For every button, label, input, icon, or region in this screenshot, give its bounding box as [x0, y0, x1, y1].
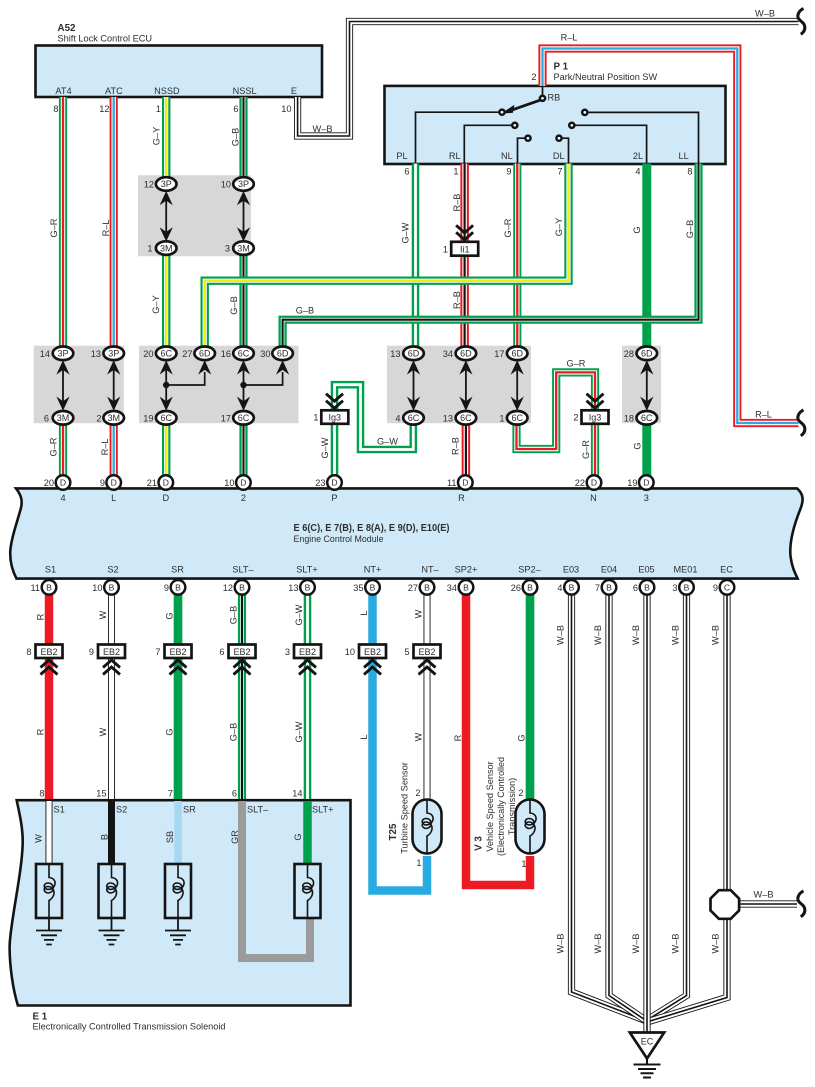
wire contact to PL pin [416, 112, 500, 163]
wire R from ECM SP2+ pin 34 to V3 pin 1 [466, 593, 530, 885]
svg-text:17: 17 [494, 349, 504, 359]
svg-text:T25: T25 [388, 823, 399, 840]
svg-text:EB2: EB2 [299, 647, 316, 657]
svg-text:14: 14 [40, 349, 50, 359]
wire contact to DL pin [562, 138, 569, 163]
connector 20 6C [156, 347, 177, 361]
svg-text:S2: S2 [116, 805, 127, 815]
svg-text:3: 3 [285, 647, 290, 657]
Engine Control Module band [10, 488, 802, 578]
wire G-W from P1 PL pin 6 to 13 6D [415, 164, 417, 348]
svg-text:NSSD: NSSD [154, 86, 180, 96]
ECM pin circle 21 D [159, 475, 174, 490]
connector 13 6C [456, 411, 477, 425]
svg-text:23: 23 [315, 478, 325, 488]
svg-text:8: 8 [53, 104, 58, 114]
svg-text:10: 10 [224, 478, 234, 488]
svg-text:13: 13 [288, 583, 298, 593]
wire G-R from 1 6C through 2 Ig3 to ECM pin 22 D [517, 372, 596, 476]
svg-text:EC: EC [641, 1037, 654, 1047]
connector pair arrow 28 6D column [640, 360, 653, 411]
svg-text:13: 13 [390, 349, 400, 359]
svg-text:3: 3 [644, 493, 649, 503]
svg-text:R: R [453, 734, 463, 741]
connector 1 3M [156, 241, 177, 255]
svg-text:8: 8 [26, 647, 31, 657]
svg-text:16: 16 [221, 349, 231, 359]
wire G-W from 4 6C through 1 Ig3 to ECM pin 23 D [335, 385, 414, 476]
ECM pin circle 13 B SLT+ [300, 580, 315, 595]
svg-text:R: R [36, 613, 46, 620]
svg-text:R–L: R–L [101, 220, 111, 237]
svg-text:G: G [293, 833, 303, 840]
svg-text:EB2: EB2 [418, 647, 435, 657]
ground below S1 [36, 918, 62, 945]
svg-text:1: 1 [499, 414, 504, 424]
svg-text:10: 10 [92, 583, 102, 593]
wire GR inside E1 from SLT- to SLT+ solenoid bottom [242, 801, 310, 958]
svg-text:W–B: W–B [711, 934, 721, 954]
svg-text:2: 2 [573, 413, 578, 423]
svg-text:6: 6 [44, 414, 49, 424]
wire W inside E1 to S1 solenoid [48, 801, 50, 864]
svg-text:18: 18 [624, 414, 634, 424]
svg-text:10: 10 [345, 647, 355, 657]
svg-text:SLT–: SLT– [247, 805, 269, 815]
wire G from ECM SP2- pin 26 to V3 pin 2 [526, 593, 535, 800]
svg-text:19: 19 [627, 478, 637, 488]
svg-text:W: W [414, 609, 424, 618]
wire G from P1 2L pin 4 to 28 6D [642, 164, 651, 348]
V3 Vehicle Speed Sensor capsule [516, 800, 545, 854]
wire contact to NL pin [518, 138, 526, 163]
svg-text:E03: E03 [563, 564, 579, 574]
svg-text:P: P [331, 493, 337, 503]
svg-text:R: R [458, 493, 465, 503]
connector pair arrow AT4 column [56, 360, 69, 411]
connector 1 6C [507, 411, 528, 425]
connector 3 EB2 SLT+ [294, 645, 321, 659]
svg-text:1: 1 [147, 244, 152, 254]
wire W from ECM NT- pin 27 through 5 EB2 to T25 pin 2 [426, 593, 428, 800]
octagon junction on EC wire [711, 890, 740, 919]
chevron into 1 Ig3 [326, 394, 343, 409]
svg-text:28: 28 [624, 349, 634, 359]
svg-text:G: G [165, 612, 175, 619]
Shift Lock Control ECU A52 block [36, 46, 323, 98]
svg-text:9: 9 [89, 647, 94, 657]
svg-text:W–B: W–B [754, 890, 774, 900]
wire W from ECM S2 pin 10 through 9 EB2 to E1 [111, 593, 113, 799]
svg-text:Engine Control Module: Engine Control Module [294, 534, 384, 544]
node RB [540, 96, 545, 101]
svg-text:E05: E05 [638, 564, 654, 574]
svg-text:W–B: W–B [556, 934, 566, 954]
page break curl right W-B octagon [798, 891, 805, 917]
connector pair arrow 16 6C column with junction [237, 360, 250, 411]
svg-text:SLT–: SLT– [232, 564, 254, 574]
svg-text:27: 27 [182, 349, 192, 359]
wire W-B from ECM E05 pin 6 straight to EC ground [646, 593, 648, 1033]
svg-text:30: 30 [260, 349, 270, 359]
svg-text:2: 2 [518, 788, 523, 798]
svg-text:W: W [414, 732, 424, 741]
wire SB inside E1 to SR solenoid [174, 801, 182, 864]
ECM pin circle 35 B NT+ [365, 580, 380, 595]
wire B inside E1 to S2 solenoid [108, 801, 115, 864]
wire L from ECM NT+ pin 35 through 10 EB2 to T25 pin 1 [373, 593, 428, 891]
svg-text:1: 1 [416, 858, 421, 868]
ECM pin circle 22 D [587, 475, 602, 490]
svg-text:2: 2 [531, 72, 536, 82]
ECM pin circle 3 B ME01 [679, 580, 694, 595]
svg-text:S1: S1 [54, 805, 65, 815]
svg-text:4: 4 [60, 493, 65, 503]
svg-text:6: 6 [232, 789, 237, 799]
svg-text:A52: A52 [58, 23, 77, 34]
svg-text:W: W [98, 727, 108, 736]
svg-text:NT–: NT– [421, 564, 439, 574]
ECM pin circle 9 B SR [171, 580, 186, 595]
page break curl right R-L [798, 410, 805, 436]
connector 18 6C [637, 411, 658, 425]
svg-text:DL: DL [553, 151, 565, 161]
svg-text:11: 11 [447, 478, 457, 488]
ECM pin circle 20 D [56, 475, 71, 490]
connector 28 6D [637, 347, 658, 361]
wire W-B from ECM E04 pin 7 to EC ground [609, 593, 646, 1021]
connector 8 EB2 S1 [36, 645, 63, 659]
svg-text:AT4: AT4 [55, 86, 71, 96]
svg-text:9: 9 [164, 583, 169, 593]
wire W-B from ECM ME01 pin 3 to EC ground [648, 593, 687, 1020]
wire G-B from A52 NSSL pin 6 through 10 3P / 3 3M to 16 6C [243, 97, 245, 347]
svg-text:SLT+: SLT+ [312, 805, 334, 815]
svg-text:G–W: G–W [294, 604, 304, 625]
wire W-B from ECM EC pin 9 through octagon junction to EC ground [649, 593, 728, 1022]
wire contact to 2L pin [574, 125, 646, 163]
solenoid SR coil box [165, 864, 191, 918]
ECM pin circle 12 B SLT- [235, 580, 250, 595]
svg-text:SR: SR [171, 564, 184, 574]
wire G-R from 6 3M to ECM pin 20 D [62, 424, 64, 476]
svg-text:35: 35 [353, 583, 363, 593]
svg-text:20: 20 [44, 478, 54, 488]
svg-text:EC: EC [720, 564, 733, 574]
wire G-B from ECM SLT- pin 12 through 6 EB2 to E1 [241, 593, 243, 799]
connector 13 3P [103, 347, 124, 361]
connector 34 6D [456, 347, 477, 361]
E1 Transmission Solenoid block [10, 800, 351, 1005]
wire R from ECM S1 pin 11 through 8 EB2 to E1 [45, 593, 54, 799]
connector pair arrow NSSL column [237, 191, 250, 242]
svg-text:21: 21 [147, 478, 157, 488]
svg-text:G: G [632, 226, 642, 233]
svg-text:20: 20 [143, 349, 153, 359]
svg-text:G–R: G–R [503, 218, 513, 237]
svg-text:15: 15 [96, 789, 106, 799]
svg-text:G–Y: G–Y [554, 218, 564, 236]
svg-text:W–B: W–B [556, 625, 566, 645]
svg-text:G: G [165, 728, 175, 735]
svg-text:G–W: G–W [377, 437, 398, 447]
svg-text:34: 34 [447, 583, 457, 593]
svg-text:Electronically Controlled Tran: Electronically Controlled Transmission S… [33, 1022, 226, 1032]
svg-text:G–B: G–B [229, 296, 239, 314]
svg-text:S1: S1 [45, 564, 56, 574]
svg-text:Park/Neutral Position SW: Park/Neutral Position SW [554, 72, 658, 82]
svg-text:EB2: EB2 [233, 647, 250, 657]
wire W-B from A52 E pin 10 to top right page break [298, 22, 799, 137]
svg-text:L: L [359, 610, 369, 615]
svg-text:ME01: ME01 [673, 564, 697, 574]
svg-text:G–Y: G–Y [151, 295, 161, 313]
wire lead from P1 pin 2 to RB contact [542, 86, 544, 96]
svg-text:1: 1 [313, 413, 318, 423]
wire G-Y from P1 DL pin 7 left to 27 6D [205, 164, 569, 348]
ECM pin circle 9 D [106, 475, 121, 490]
svg-text:V 3: V 3 [474, 836, 485, 851]
svg-text:SR: SR [183, 805, 196, 815]
svg-text:7: 7 [557, 167, 562, 177]
connector 12 3P [156, 177, 177, 191]
wire R-B from 13 6C to ECM pin 11 D [465, 424, 467, 476]
svg-text:N: N [590, 493, 597, 503]
svg-text:G: G [517, 734, 527, 741]
svg-text:17: 17 [221, 414, 231, 424]
svg-text:4: 4 [557, 583, 562, 593]
svg-text:10: 10 [221, 180, 231, 190]
connector 30 6D [272, 347, 293, 361]
svg-text:EB2: EB2 [103, 647, 120, 657]
svg-text:Turbine Speed Sensor: Turbine Speed Sensor [400, 762, 410, 854]
svg-text:34: 34 [443, 349, 453, 359]
svg-text:EB2: EB2 [169, 647, 186, 657]
svg-text:2: 2 [241, 493, 246, 503]
svg-text:13: 13 [91, 349, 101, 359]
wire G-R from A52 AT4 pin 8 to 14 3P [62, 97, 64, 347]
ECM pin circle 10 B S2 [104, 580, 119, 595]
svg-text:RL: RL [449, 151, 461, 161]
svg-text:G–B: G–B [231, 128, 241, 146]
svg-text:6: 6 [404, 167, 409, 177]
svg-text:8: 8 [39, 789, 44, 799]
svg-text:G–R: G–R [49, 218, 59, 237]
connector pair arrow 17 6D column [511, 360, 524, 411]
connector 9 EB2 S2 [98, 645, 125, 659]
connector 2 Ig3 box [582, 410, 609, 424]
svg-text:Transmission): Transmission) [507, 778, 517, 835]
svg-text:W–B: W–B [593, 934, 603, 954]
svg-text:7: 7 [168, 789, 173, 799]
svg-text:E: E [291, 86, 297, 96]
svg-text:12: 12 [144, 180, 154, 190]
svg-text:R–B: R–B [452, 291, 462, 309]
connector 13 6D [403, 347, 424, 361]
chevron into 1 Ii1 [456, 225, 473, 240]
ECM pin circle 11 B S1 [42, 580, 57, 595]
svg-text:L: L [359, 734, 369, 739]
solenoid S1 coil box [36, 864, 62, 918]
connector 14 3P [53, 347, 74, 361]
svg-text:7: 7 [155, 647, 160, 657]
svg-text:7: 7 [595, 583, 600, 593]
wire R-L from P1 pin 2 down right side to page break [543, 49, 799, 424]
wire G-Y from A52 NSSD pin 1 through 12 3P / 1 3M to 20 6C [165, 97, 167, 347]
svg-text:G–W: G–W [294, 721, 304, 742]
svg-text:1: 1 [156, 104, 161, 114]
svg-text:G–B: G–B [229, 606, 239, 624]
ECM pin circle 34 B SP2+ [459, 580, 474, 595]
connector 27 6D [194, 347, 215, 361]
svg-text:PL: PL [396, 151, 407, 161]
svg-text:R–B: R–B [451, 437, 461, 455]
wire R-L from 2 3M to ECM pin 9 D [113, 424, 115, 476]
connector 1 Ii1 box [451, 242, 478, 256]
ECM pin circle 27 B NT- [420, 580, 435, 595]
svg-text:G–R: G–R [49, 437, 59, 456]
ground below S2 [99, 918, 125, 945]
wire G-W from ECM SLT+ pin 13 through 3 EB2 to E1 [307, 593, 309, 799]
ECM pin circle 10 D [236, 475, 251, 490]
svg-text:G–B: G–B [229, 723, 239, 741]
svg-text:W–B: W–B [313, 124, 333, 134]
connector 5 EB2 NT- [414, 645, 441, 659]
svg-text:6: 6 [633, 583, 638, 593]
junction dot and branch to 27 6D [166, 372, 205, 385]
svg-text:G–R: G–R [581, 440, 591, 459]
svg-text:G–B: G–B [296, 306, 314, 316]
svg-text:4: 4 [395, 414, 400, 424]
switch lever arm from RB [509, 100, 541, 111]
svg-text:12: 12 [99, 104, 109, 114]
svg-text:NL: NL [501, 151, 513, 161]
svg-text:Ii1: Ii1 [460, 244, 470, 254]
svg-text:27: 27 [408, 583, 418, 593]
svg-text:W–B: W–B [671, 934, 681, 954]
ECM pin circle 7 B E04 [602, 580, 617, 595]
connector 6 EB2 SLT- [229, 645, 256, 659]
connector 4 6C [403, 411, 424, 425]
svg-text:R–B: R–B [452, 194, 462, 212]
svg-text:EB2: EB2 [40, 647, 57, 657]
svg-text:RB: RB [548, 93, 561, 103]
wire G inside E1 to SLT+ solenoid [303, 801, 312, 864]
svg-text:W–B: W–B [711, 625, 721, 645]
connector 10 EB2 NT+ [359, 645, 386, 659]
svg-text:E 6(C), E 7(B), E 8(A), E 9(D): E 6(C), E 7(B), E 8(A), E 9(D), E10(E) [294, 523, 450, 534]
connector 1 Ig3 box [321, 410, 348, 424]
svg-text:GR: GR [230, 830, 240, 844]
contact RL [512, 123, 517, 128]
connector pair arrow 13 6D column [407, 360, 420, 411]
svg-text:3: 3 [672, 583, 677, 593]
wire W-B from ECM E03 pin 4 to EC ground [572, 593, 646, 1021]
svg-text:G–R: G–R [567, 359, 586, 369]
svg-text:W–B: W–B [593, 625, 603, 645]
svg-text:14: 14 [292, 789, 302, 799]
connector pair arrow NSSD column [160, 191, 173, 242]
svg-text:G–W: G–W [401, 222, 411, 243]
page break curl top right W-B [798, 9, 805, 35]
svg-text:8: 8 [687, 167, 692, 177]
connector 7 EB2 SR [165, 645, 192, 659]
svg-text:G–Y: G–Y [152, 127, 162, 145]
ECM pin circle 19 D [639, 475, 654, 490]
svg-text:4: 4 [635, 167, 640, 177]
EC ground triangle [630, 1033, 664, 1059]
svg-text:B: B [100, 834, 110, 840]
svg-text:G–B: G–B [685, 220, 695, 238]
ground below SR [165, 918, 191, 945]
svg-text:W: W [98, 610, 108, 619]
svg-text:1: 1 [521, 859, 526, 869]
connector 10 3P [233, 177, 254, 191]
solenoid S2 coil box [99, 864, 125, 918]
svg-text:SB: SB [165, 831, 175, 843]
wire G from ECM SR pin 9 through 7 EB2 to E1 [174, 593, 183, 799]
ECM pin circle 26 B SP2- [523, 580, 538, 595]
svg-text:2: 2 [415, 788, 420, 798]
wire contact to LL pin [587, 112, 698, 163]
svg-text:2L: 2L [633, 151, 643, 161]
svg-text:1: 1 [453, 167, 458, 177]
connector 2 3M [103, 411, 124, 425]
svg-text:11: 11 [30, 583, 40, 593]
svg-text:13: 13 [443, 414, 453, 424]
svg-text:Shift Lock Control ECU: Shift Lock Control ECU [58, 34, 152, 44]
ECM pin circle 6 B E05 [640, 580, 655, 595]
wire R-L from A52 ATC pin 12 to 13 3P [113, 97, 115, 347]
wire G-R from P1 NL pin 9 to 17 6D [516, 164, 518, 348]
wire W-B branch from octagon to right page break [739, 903, 797, 905]
wire G-B from P1 LL pin 8 left to 30 6D [283, 164, 699, 348]
connector 17 6C [233, 411, 254, 425]
contact DL [556, 136, 561, 141]
svg-text:2: 2 [96, 414, 101, 424]
contact LL [582, 110, 587, 115]
svg-text:6: 6 [233, 104, 238, 114]
connector pair arrow 34 6D column [459, 360, 472, 411]
svg-text:W–B: W–B [755, 9, 775, 19]
chevron into 2 Ig3 [587, 394, 604, 409]
svg-text:12: 12 [223, 583, 233, 593]
svg-text:SP2+: SP2+ [455, 564, 478, 574]
connector 19 6C [156, 411, 177, 425]
contact NL [525, 136, 530, 141]
svg-text:10: 10 [281, 104, 291, 114]
svg-text:9: 9 [506, 167, 511, 177]
svg-text:26: 26 [511, 583, 521, 593]
svg-text:NT+: NT+ [364, 564, 382, 574]
svg-text:W: W [34, 834, 44, 843]
svg-text:5: 5 [404, 647, 409, 657]
svg-text:NSSL: NSSL [233, 86, 257, 96]
svg-text:22: 22 [575, 478, 585, 488]
svg-text:R–L: R–L [561, 33, 578, 43]
contact PL [499, 110, 504, 115]
svg-text:3: 3 [225, 244, 230, 254]
ground symbol below EC [634, 1059, 661, 1078]
connector 16 6C [233, 347, 254, 361]
svg-text:9: 9 [100, 478, 105, 488]
ECM pin circle 23 D [327, 475, 342, 490]
solenoid SLT+ coil box [295, 864, 321, 918]
svg-text:E04: E04 [601, 564, 617, 574]
wire G from 18 6C to ECM pin 19 D [642, 424, 651, 476]
svg-text:D: D [162, 493, 169, 503]
ECM pin circle 9 C EC [720, 580, 735, 595]
